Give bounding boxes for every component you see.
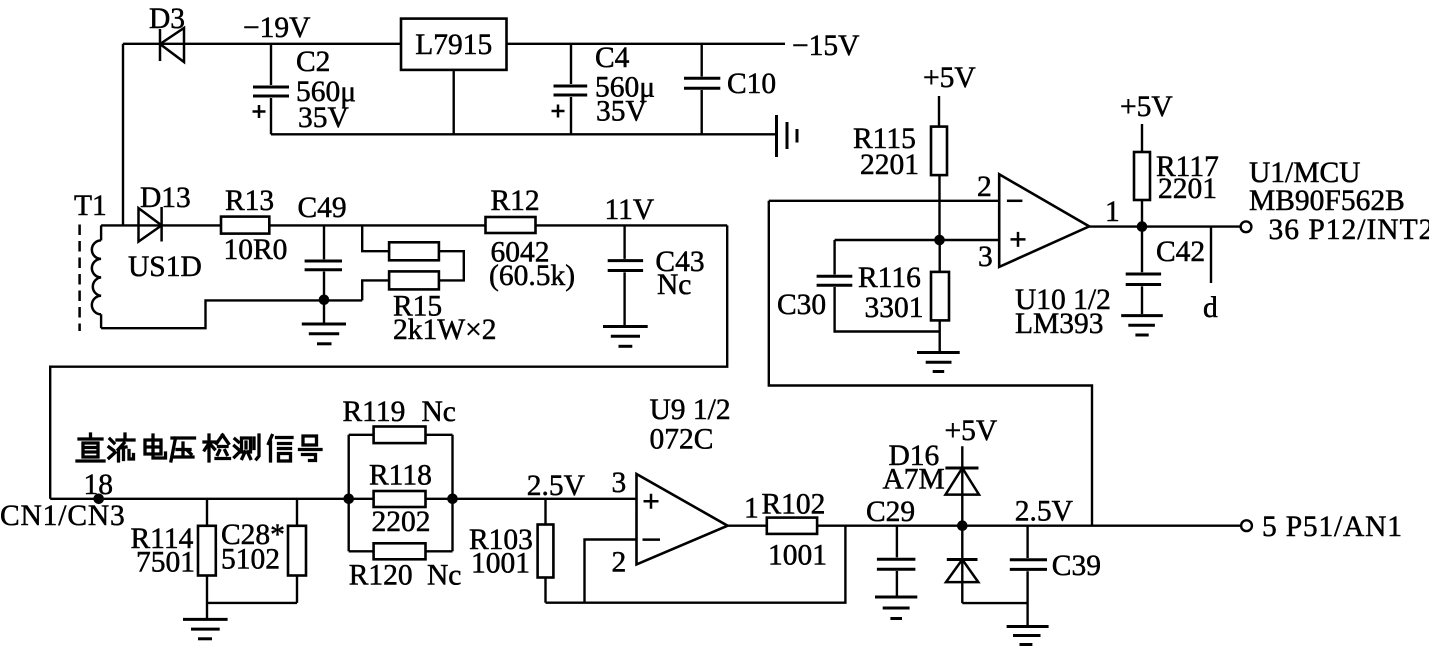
svg-text:2k1W×2: 2k1W×2 (393, 314, 496, 346)
junction dot output (1137, 221, 1148, 232)
terminal INT2 (1241, 221, 1252, 232)
resistor pair R15 (362, 225, 464, 300)
resistor R114 (198, 499, 216, 620)
svg-text:2.5V: 2.5V (527, 470, 585, 502)
svg-text:2: 2 (612, 547, 627, 579)
resistor network R119 R118 R120 (349, 427, 453, 560)
svg-text:R119: R119 (343, 396, 406, 428)
svg-text:C30: C30 (777, 289, 826, 321)
svg-text:2201: 2201 (860, 149, 919, 181)
wire pin2 LM393 (769, 200, 999, 202)
resistor R116 (931, 240, 949, 352)
svg-text:L7915: L7915 (415, 29, 492, 61)
svg-text:MB90F562B: MB90F562B (1249, 185, 1405, 217)
wire R115 to node (938, 175, 940, 240)
svg-text:C10: C10 (727, 68, 776, 100)
svg-text:18: 18 (84, 469, 114, 501)
svg-text:7501: 7501 (136, 547, 195, 579)
svg-text:C39: C39 (1052, 550, 1101, 582)
diode D3 (160, 28, 184, 62)
capacitor C43 (608, 225, 643, 325)
svg-text:3301: 3301 (865, 292, 924, 324)
wire bottom main (50, 498, 636, 500)
op-amp U9 (637, 474, 728, 564)
diode D13 (139, 207, 162, 242)
svg-text:−15V: −15V (792, 30, 859, 62)
wire loop 11V to bottom row (50, 225, 727, 498)
capacitor C30 (817, 240, 940, 332)
wire output to terminal (817, 525, 1240, 527)
svg-text:2201: 2201 (1158, 173, 1217, 205)
wire LM393 output (1089, 225, 1240, 227)
junction dot node3 (934, 235, 945, 246)
junction dot right (447, 494, 458, 505)
svg-text:CN1/CN3: CN1/CN3 (0, 500, 126, 532)
svg-text:T1: T1 (74, 190, 107, 222)
capacitor C39 (1010, 526, 1047, 626)
svg-text:R116: R116 (858, 262, 921, 294)
wire row2 right (536, 224, 728, 226)
svg-text:1: 1 (1105, 196, 1120, 228)
svg-text:Nc: Nc (657, 269, 691, 301)
svg-text:C49: C49 (298, 192, 347, 224)
capacitor C49 (305, 225, 342, 299)
resistor R102 (767, 518, 817, 534)
svg-text:2.5V: 2.5V (1015, 496, 1073, 528)
transformer T1 (80, 225, 102, 332)
resistor R117 (1134, 152, 1150, 200)
svg-text:US1D: US1D (128, 251, 202, 283)
wire left drop to T1 (122, 44, 124, 226)
ground under R114 (183, 619, 228, 638)
wire +5V stem (1141, 124, 1143, 152)
capacitor C42 (1126, 227, 1161, 314)
svg-text:(60.5k): (60.5k) (489, 260, 575, 292)
svg-text:U9 1/2: U9 1/2 (650, 394, 731, 426)
svg-text:d: d (1203, 292, 1218, 324)
svg-text:R120: R120 (349, 560, 413, 592)
wire L7915 center pin (453, 70, 455, 134)
wire pin3 LM393 (835, 239, 1000, 241)
ground under R116 (917, 353, 960, 372)
svg-text:36 P12/INT2: 36 P12/INT2 (1269, 214, 1429, 246)
resistor R13 (221, 217, 269, 234)
svg-text:C2: C2 (296, 46, 330, 78)
diode D16 upper (945, 446, 979, 526)
svg-text:11V: 11V (605, 194, 655, 226)
svg-text:R13: R13 (225, 185, 274, 217)
svg-text:Nc: Nc (427, 560, 461, 592)
svg-text:2: 2 (977, 171, 992, 203)
svg-text:5102: 5102 (221, 544, 280, 576)
wire D16 to C39 ground (962, 602, 1027, 604)
capacitor C10 (684, 44, 720, 135)
wire row2 main (101, 224, 485, 226)
test point d (1210, 227, 1212, 283)
wire R117 to node (1141, 200, 1143, 227)
svg-text:C29: C29 (866, 496, 915, 528)
op-amp U10 LM393 (999, 174, 1089, 267)
svg-text:072C: 072C (650, 424, 714, 456)
svg-text:35V: 35V (596, 96, 647, 128)
svg-text:+5V: +5V (1120, 91, 1173, 123)
svg-text:R118: R118 (369, 460, 432, 492)
wire C28 to R114 ground (207, 602, 297, 604)
capacitor C2 (253, 44, 290, 135)
resistor R103 (538, 499, 554, 603)
svg-text:D3: D3 (149, 3, 185, 35)
svg-text:C42: C42 (1156, 236, 1205, 268)
ground under C42 (1121, 316, 1163, 335)
svg-text:35V: 35V (298, 102, 349, 134)
wire feedback to pin2 (585, 540, 638, 603)
ground under C43 (603, 327, 648, 347)
ground under C49 (302, 300, 346, 344)
svg-text:1001: 1001 (471, 548, 530, 580)
capacitor C28 (288, 499, 306, 603)
ground right-facing (777, 115, 798, 157)
diode D16 lower (946, 526, 978, 603)
capacitor C29 (877, 526, 916, 596)
ground under C29 (875, 597, 917, 619)
wire U9 output (728, 525, 767, 527)
wire pin2 loop to 2.5V line (769, 201, 1092, 526)
svg-text:+5V: +5V (923, 62, 976, 94)
wire +5V stem (938, 96, 940, 127)
svg-text:+5V: +5V (945, 415, 998, 447)
ground under C39 (1007, 627, 1049, 645)
wire bottom rail (271, 133, 777, 135)
svg-text:LM393: LM393 (1015, 308, 1104, 340)
svg-text:Nc: Nc (422, 396, 456, 428)
resistor R12 (486, 217, 536, 233)
svg-text:C4: C4 (595, 42, 630, 74)
junction dot 18 (93, 494, 104, 505)
wire top rail right (507, 43, 786, 45)
svg-text:3: 3 (978, 241, 993, 273)
capacitor C4 (552, 44, 588, 135)
wire top rail left (123, 43, 401, 45)
svg-text:R102: R102 (762, 489, 826, 521)
label DC voltage detect signal (Chinese) (77, 434, 321, 461)
junction dot 2.5V (957, 520, 968, 531)
svg-text:D13: D13 (140, 182, 191, 214)
svg-text:A7M: A7M (883, 464, 945, 496)
regulator L7915 (401, 19, 507, 70)
svg-text:2202: 2202 (372, 506, 431, 538)
svg-text:10R0: 10R0 (224, 234, 288, 266)
junction dot C49 (319, 295, 330, 306)
wire feedback bottom (546, 526, 846, 603)
wire T1 bottom route (101, 300, 362, 328)
svg-text:5 P51/AN1: 5 P51/AN1 (1262, 511, 1403, 543)
svg-text:1: 1 (744, 493, 759, 525)
resistor R115 (931, 127, 947, 176)
svg-text:3: 3 (612, 467, 627, 499)
junction dot left (343, 494, 354, 505)
svg-text:−19V: −19V (243, 12, 310, 44)
svg-text:1001: 1001 (768, 540, 827, 572)
svg-text:R12: R12 (491, 185, 540, 217)
terminal P51/AN1 (1241, 520, 1252, 531)
